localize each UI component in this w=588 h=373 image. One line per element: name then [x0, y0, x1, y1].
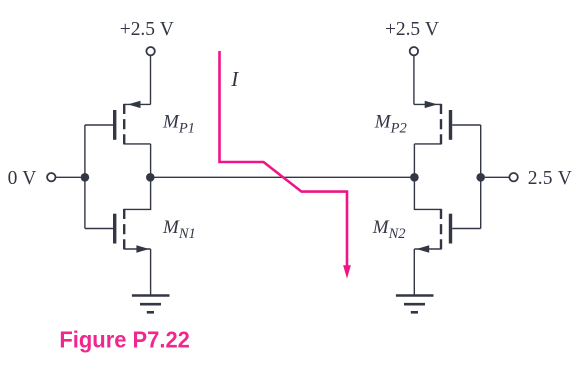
transistor M_N2: [414, 209, 450, 253]
wire: M_P2 gate lead: [452, 124, 481, 126]
wire: main node wire between inverters: [150, 176, 414, 178]
wire: M_N1 source to ground: [150, 249, 152, 295]
svg-text:Figure P7.22: Figure P7.22: [59, 326, 190, 352]
wire: input terminal to junction: [56, 176, 80, 178]
ground (left): [132, 296, 170, 313]
terminal circle right supply: [410, 47, 418, 55]
transistor M_P1: [115, 101, 151, 145]
svg-text:+2.5 V: +2.5 V: [120, 19, 174, 40]
node: input junction dot: [81, 173, 90, 182]
wire: gate bus of inverter 2: [480, 125, 482, 229]
wire: node down to M_N2 drain: [414, 177, 441, 209]
wire: M_P2 drain to node: [413, 144, 415, 177]
ground (right): [396, 296, 434, 313]
node: drain junction dot (inverter 2): [410, 173, 419, 182]
terminal circle input 0 V: [47, 173, 55, 181]
svg-text:2.5 V: 2.5 V: [528, 168, 572, 189]
svg-text:I: I: [230, 67, 239, 91]
svg-text:0 V: 0 V: [8, 168, 37, 189]
terminal circle left supply: [146, 47, 154, 55]
wire: right supply to M_P2 source: [413, 56, 415, 104]
wire: M_N2 source to ground: [413, 249, 415, 295]
wire: M_N2 gate lead: [452, 228, 481, 230]
transistor M_N1: [115, 209, 151, 253]
wire: output junction to terminal: [485, 176, 509, 178]
wire: M_P1 drain to output node: [150, 144, 152, 177]
wire: M_N1 gate lead: [85, 228, 113, 230]
wire: output node down to M_N1 drain: [124, 177, 150, 209]
current path I (pink annotation): [220, 51, 351, 279]
node: output junction dot (gate bus to 2.5 V terminal): [476, 173, 485, 182]
node: inverter 1 output dot: [146, 173, 155, 182]
wire: M_P1 gate lead: [85, 124, 113, 126]
transistor M_P2: [414, 101, 451, 145]
svg-text:+2.5 V: +2.5 V: [385, 19, 439, 40]
terminal circle output 2.5 V: [509, 173, 517, 181]
wire: gate bus of inverter 1: [84, 125, 86, 229]
wire: left supply to M_P1 source: [150, 56, 152, 104]
